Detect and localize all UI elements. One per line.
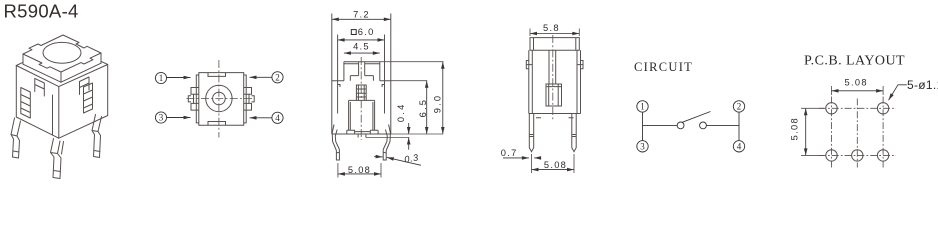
iso base bottom-right edge: [59, 116, 108, 139]
svg-text:4.5: 4.5: [353, 42, 370, 52]
pcb hole top-left: [826, 103, 837, 114]
circuit pin 3: [637, 141, 648, 152]
top view top slot: [208, 73, 226, 77]
circuit lever: [683, 112, 711, 123]
top view inner circle: [213, 92, 226, 105]
iso cap top face: [23, 35, 101, 72]
svg-text:2: 2: [275, 73, 280, 83]
svg-text:0.4: 0.4: [396, 103, 406, 123]
pcb hole top-right: [877, 103, 888, 114]
front right extension lines: [366, 62, 444, 138]
front right leg: [383, 125, 390, 161]
callout 2: [250, 72, 284, 83]
pcb center lines horizontal: [819, 108, 896, 155]
iso leg left: [11, 118, 21, 158]
svg-text:5.08: 5.08: [789, 117, 799, 140]
svg-text:5.08: 5.08: [845, 78, 868, 88]
front body top line: [332, 80, 391, 82]
circuit pin 1: [637, 101, 648, 112]
iso base rim right corner: [101, 61, 108, 64]
pcb hole bottom-left: [826, 150, 837, 161]
svg-text:4: 4: [737, 142, 742, 152]
circuit pin 4: [733, 141, 744, 152]
svg-text:CIRCUIT: CIRCUIT: [634, 60, 693, 74]
side left tab: [526, 61, 532, 69]
dim 7.2: [332, 18, 391, 20]
circuit wire left vertical: [642, 112, 644, 141]
iso base front corner vertical: [58, 87, 60, 139]
top view outer circle: [206, 85, 232, 111]
iso base tab left: [35, 78, 45, 96]
iso base rim front-left edge: [16, 66, 59, 87]
side bottom center detail: [546, 84, 562, 106]
side body outer verticals: [529, 50, 581, 113]
iso base bottom-left edge: [16, 117, 59, 138]
pcb hole bottom-right: [877, 150, 888, 161]
front outer right edge: [390, 14, 392, 135]
iso leg right: [92, 115, 102, 158]
circuit wire left horizontal: [643, 124, 678, 126]
iso base rim front-right edge: [59, 65, 108, 87]
side cap: [530, 38, 579, 51]
iso front corner groove: [52, 95, 54, 135]
svg-text:5.08: 5.08: [544, 160, 567, 170]
svg-text:7.2: 7.2: [353, 10, 370, 20]
dim 5.8: [530, 29, 579, 37]
dim 4.5: [344, 52, 380, 54]
svg-text:R590A-4: R590A-4: [4, 1, 79, 22]
front view body: [332, 14, 391, 161]
svg-text:3: 3: [159, 113, 164, 123]
front cap pedestal: [350, 64, 373, 81]
iso cap right edge: [100, 53, 102, 63]
pcb dim 5.08 vertical: [801, 108, 824, 155]
dim 9.0: [442, 62, 444, 134]
front inner left edge: [337, 35, 339, 114]
front body top inner steps: [338, 85, 385, 88]
top view body square: [199, 73, 244, 126]
pcb hole bottom-mid: [852, 150, 863, 161]
side center column: [549, 50, 556, 84]
pcb hole count label 5-dia1.: [889, 85, 907, 100]
callout 1: [155, 72, 190, 83]
svg-text:5-ø1.1: 5-ø1.1: [907, 78, 938, 92]
circuit contact right: [700, 122, 707, 129]
svg-text:0.3: 0.3: [404, 152, 420, 164]
circuit wire right vertical: [738, 112, 740, 141]
front inner housing: [349, 100, 375, 130]
svg-text:5.8: 5.8: [543, 23, 560, 33]
side cap corner ticks: [534, 38, 576, 51]
top view right side tab: [244, 88, 252, 111]
top view right outer tab line: [244, 75, 247, 123]
front cap: [344, 62, 380, 81]
top view left outer tab line: [196, 75, 199, 123]
side body inner verticals: [532, 50, 577, 113]
front center line: [360, 57, 362, 140]
svg-text:6.0: 6.0: [358, 27, 375, 37]
dim 6.5: [426, 81, 428, 134]
circuit pin 2: [733, 101, 744, 112]
front inner right edge: [384, 35, 386, 114]
dim 6.0 square: [338, 30, 385, 40]
circuit contact left: [677, 122, 684, 129]
svg-text:3: 3: [640, 142, 645, 152]
svg-text:0.7: 0.7: [501, 148, 518, 158]
front housing feet: [347, 130, 378, 134]
iso base right vertical: [107, 65, 109, 116]
side right tab: [577, 61, 583, 69]
top view center lines: [187, 60, 253, 138]
pcb dim 5.08 horizontal: [832, 86, 884, 95]
iso base left vertical: [15, 66, 17, 118]
front base bottom: [332, 133, 391, 135]
svg-text:9.0: 9.0: [433, 94, 443, 114]
front cap inner ledge: [344, 62, 380, 64]
svg-text:P.C.B. LAYOUT: P.C.B. LAYOUT: [804, 54, 905, 69]
front outer left edge: [331, 14, 333, 135]
top view bottom slot: [208, 122, 226, 126]
side center line: [552, 35, 554, 120]
iso cap left edge: [22, 54, 24, 64]
svg-text:2: 2: [737, 102, 742, 112]
dim 5.08 side: [532, 154, 575, 173]
pcb center lines vertical: [832, 97, 884, 168]
circuit wire right horizontal: [706, 124, 739, 126]
front plunger stem: [356, 85, 366, 100]
svg-text:5.08: 5.08: [348, 165, 371, 175]
side leg brackets: [536, 117, 574, 119]
svg-text:1: 1: [640, 102, 645, 112]
iso base right face pin detail: [84, 83, 93, 113]
iso button ellipse: [43, 42, 81, 63]
top view left side tab: [191, 88, 199, 111]
iso leg front: [51, 139, 64, 179]
front left leg: [332, 125, 339, 161]
side right leg: [572, 114, 576, 152]
iso base tab right: [80, 77, 90, 95]
iso cap lower edges: [23, 63, 101, 82]
iso base rim left corner: [16, 62, 23, 65]
callout 3: [155, 112, 190, 123]
dim 5.08 front: [338, 163, 381, 178]
callout 4: [250, 112, 284, 123]
dim 0.7: [503, 157, 541, 159]
side left leg: [529, 114, 533, 152]
side body bottom: [529, 113, 581, 115]
svg-text:4: 4: [275, 113, 280, 123]
dim 0.4: [408, 123, 410, 150]
iso cap front edge: [60, 72, 62, 82]
front center post foot: [358, 134, 366, 138]
iso base left face pin detail: [21, 88, 31, 119]
dim 0.3 leg thickness: [374, 157, 421, 166]
svg-text:1: 1: [159, 73, 164, 83]
svg-text:6.5: 6.5: [418, 98, 428, 118]
